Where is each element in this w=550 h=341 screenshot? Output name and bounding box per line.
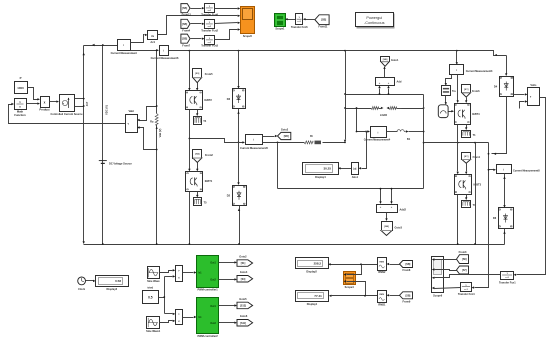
svg-text:Vabt: Vabt: [128, 109, 134, 113]
wire constant-1000 to Product: [28, 88, 38, 100]
block Av1 mean value: [148, 31, 158, 40]
from tag From4: [181, 19, 190, 28]
wire CM1 electrical out to CM6: [131, 50, 157, 52]
display Display1: [296, 291, 329, 302]
wire branch to comparator2 upper input: [165, 313, 173, 315]
svg-text:[SB]: [SB]: [405, 294, 410, 297]
svg-text:From5: From5: [205, 72, 213, 76]
wire From7 to Transfer Fcn3: [191, 38, 202, 40]
wire mid rail down to IGBT1 collector: [189, 139, 191, 170]
transfer function block Transfer Fcn1: [501, 272, 514, 280]
svg-text:Goto4: Goto4: [240, 270, 248, 274]
svg-text:RMS2: RMS2: [378, 270, 386, 274]
wire From10 to Scope6 input 2: [435, 270, 457, 271]
wire Product to Controlled Current Source: [50, 101, 57, 103]
from tag From12: [181, 4, 190, 13]
svg-text:IGBT2: IGBT2: [204, 98, 212, 102]
transistor IGBT1: [186, 172, 203, 192]
node bus x103: [102, 243, 104, 245]
wire load top bus y94: [346, 94, 424, 96]
wire Br rail from CM5 to load left leg: [263, 142, 305, 144]
svg-text:D4: D4: [494, 85, 498, 89]
svg-text:Transfer Fcn4: Transfer Fcn4: [458, 292, 475, 296]
svg-text:258.2: 258.2: [314, 262, 322, 266]
svg-text:RMS1: RMS1: [378, 303, 386, 307]
svg-text:IGBT4: IGBT4: [472, 112, 480, 116]
wire comparator2 to PWM-controller2: [183, 317, 194, 319]
wire Vabt output feedback to Math Function: [9, 105, 126, 124]
wire RMS1 to Display1: [332, 295, 378, 297]
svg-text:Transfer Fcn2: Transfer Fcn2: [201, 28, 218, 32]
wire From2 to IGBT1 gate: [197, 163, 199, 170]
current measurement block CM3: [450, 65, 464, 75]
transfer function block Transfer Fcn9: [205, 4, 215, 13]
svg-text:IGBT1: IGBT1: [205, 179, 213, 183]
svg-text:Ru: Ru: [150, 121, 154, 124]
wire CM3 to transformer: [446, 75, 452, 84]
svg-text:0.58: 0.58: [115, 279, 121, 283]
current measurement block CM6: [160, 46, 169, 56]
node Br rail to Goto2-feedback branch: [277, 142, 279, 144]
svg-text:Abs1: Abs1: [352, 175, 359, 179]
svg-text:[SB]: [SB]: [384, 226, 389, 228]
node top bus DC source junction: [102, 44, 104, 46]
sum block Add: [376, 78, 395, 86]
wire constant to comparators: [159, 297, 165, 299]
wire Add input left drop: [379, 89, 381, 95]
node x475 junction: [474, 142, 476, 144]
node load line right leg: [423, 107, 425, 109]
wire Volts output to right edge vertical down to Transfer Fcn1: [517, 98, 546, 275]
node CCS plus junction: [83, 98, 85, 100]
scope Scope1 green: [275, 14, 286, 27]
svg-text:Goto1: Goto1: [391, 58, 399, 62]
svg-text:From2: From2: [205, 153, 213, 157]
node left leg load-line: [344, 107, 346, 109]
current measurement block CM8: [497, 165, 512, 174]
wire PWM1 Out1 to GotoS1: [219, 262, 235, 264]
node Vab tap top: [156, 49, 158, 51]
svg-text:RMS: RMS: [379, 262, 384, 264]
wire Transfer Fcn3 to Scope5 input 4: [215, 30, 238, 40]
svg-text:Sine Wave: Sine Wave: [147, 279, 160, 283]
wire From9 to RMS1: [390, 295, 400, 297]
svg-text:417: 417: [85, 101, 89, 106]
block T5: [194, 198, 202, 206]
wire Volts input 2: [520, 102, 525, 109]
wire Av1 to Scope5 input 2: [158, 16, 238, 35]
wire tap to Scope4 input 1: [347, 265, 362, 275]
svg-text:D2: D2: [227, 194, 231, 198]
wire Volts input 1: [514, 94, 525, 96]
from tag From3: [457, 255, 469, 264]
svg-text:1000: 1000: [17, 86, 24, 90]
wire CM1 signal out to Av1: [131, 35, 145, 43]
comparator block 2: [176, 310, 183, 325]
wire clock to Display3: [86, 280, 94, 282]
from tag From6 gate signal: [462, 85, 471, 93]
svg-text:Transfer Fcn9: Transfer Fcn9: [201, 13, 218, 17]
wire Transfer Fcn6 to Scope1: [288, 19, 296, 21]
wire CM8 bottom to D6: [504, 174, 506, 206]
wire long top rail y50.6 from CM6 to right side: [169, 51, 507, 56]
wire From4 to Transfer Fcn2: [191, 23, 202, 25]
wire y142.6 line from right leg to far right vertical: [424, 142, 489, 144]
wire right load leg vertical x423.6: [423, 95, 425, 189]
svg-text:Controlled Current Source: Controlled Current Source: [51, 112, 84, 116]
svg-text:From8: From8: [403, 268, 411, 272]
svg-text:[S7]: [S7]: [462, 269, 467, 272]
svg-text:From12: From12: [182, 13, 192, 17]
svg-text:[S11]: [S11]: [240, 322, 246, 325]
wire load mid tap down to Abs1: [362, 132, 367, 169]
node scope4 tap 2: [364, 295, 366, 297]
svg-text:Current Measurement6: Current Measurement6: [151, 56, 179, 60]
wire Add2 output down to Goto3: [386, 213, 388, 219]
current measurement block CM5: [246, 135, 263, 145]
wire mid rail from IGBT2 emitter to CM5: [190, 139, 243, 143]
constant P = 1000: [15, 82, 28, 94]
wire Transfer Fcn9 to Scope5 input 1: [215, 8, 238, 10]
wire CM5 signal out to Goto2: [263, 136, 275, 138]
sine wave block Sine Wave: [148, 267, 160, 279]
svg-text:Display2: Display2: [306, 270, 317, 274]
wire Sine Wave to comparator1: [160, 271, 173, 273]
wire From5 to IGBT2 gate: [197, 83, 199, 89]
sum block Add2: [377, 205, 398, 213]
svg-text:[S?]: [S?]: [464, 89, 469, 91]
svg-text:RMS: RMS: [379, 294, 384, 296]
wire bottom bus y244: [84, 244, 505, 246]
node rail drop CM3: [456, 50, 458, 52]
node bus x189.4: [189, 243, 191, 245]
product block: [41, 97, 50, 108]
transfer function block Transfer Fcn3: [205, 36, 215, 45]
node bus x475: [474, 243, 476, 245]
goto tag Goto1: [381, 57, 390, 62]
wire gate block to IGBT4: [449, 111, 452, 113]
svg-text:From1: From1: [473, 156, 481, 159]
subsystem PWM-controller1 green: [197, 256, 219, 288]
resistor Br inline: [304, 141, 313, 144]
goto tag Goto2: [278, 132, 291, 139]
svg-text:[S4]: [S4]: [195, 153, 199, 156]
wire Vab measure vertical x156.7: [156, 51, 158, 245]
diode D2: [233, 186, 247, 206]
wire DC source vertical x103: [102, 46, 104, 245]
block RMS1: [378, 291, 387, 303]
svg-text:IGBT3: IGBT3: [474, 183, 482, 187]
wire IGBT1 pulse out to T5: [197, 192, 199, 196]
svg-text:Out1: Out1: [210, 262, 216, 265]
wire y142.6 down to IGBT3 collector: [457, 143, 459, 172]
svg-text:Volts: Volts: [530, 83, 537, 87]
wire top bus y45: [84, 45, 118, 47]
svg-text:D3: D3: [227, 97, 231, 101]
node rail corner right: [495, 54, 497, 56]
svg-text:D6: D6: [493, 216, 497, 220]
block T1: [462, 131, 471, 138]
wire IGBT4 emitter to y142.6: [457, 125, 459, 143]
svg-text:Clock: Clock: [78, 287, 86, 291]
svg-text:-Continuous: -Continuous: [364, 21, 385, 25]
DC voltage source battery symbol: [99, 160, 107, 162]
svg-text:[SB]: [SB]: [182, 23, 187, 26]
wire RMS2 to Display2: [331, 264, 378, 266]
svg-text:VDC (V): VDC (V): [104, 105, 108, 115]
display Display2: [296, 258, 329, 269]
svg-text:[S13]: [S13]: [240, 304, 246, 307]
svg-text:From3: From3: [459, 250, 467, 254]
resistor Ru inline on x156.7: [155, 114, 159, 126]
load line y108 with RL symbols: [346, 108, 372, 110]
wire From3 to Scope6 input 1: [435, 259, 457, 261]
goto tag Goto3: [382, 222, 393, 231]
wire Vabt input minus from x156.7: [140, 128, 157, 150]
svg-text:Display1: Display1: [307, 302, 318, 306]
node rail drop D3 leg: [238, 50, 240, 52]
svg-text:Out1: Out1: [210, 305, 216, 308]
svg-text:From7: From7: [182, 43, 190, 47]
wire branch down from Br rail to Add2 rail: [277, 143, 279, 189]
wire Transfer Fcn1 to Scope6 input 3: [435, 275, 501, 278]
wire branch into CM8: [489, 169, 494, 171]
svg-text:[S4]: [S4]: [241, 278, 246, 281]
wire Add input right drop: [388, 89, 390, 95]
svg-text:Function: Function: [14, 113, 26, 117]
wire left load leg vertical x345: [345, 51, 347, 140]
svg-text:Out2: Out2: [210, 279, 216, 282]
wire From11 to Transfer Fcn6: [306, 19, 315, 21]
node left leg top-bus: [344, 93, 346, 95]
from tag From5 gate signal: [193, 69, 202, 78]
svg-text:30.25: 30.25: [323, 167, 331, 171]
display Display4: [303, 163, 339, 175]
svg-text:Current Measurement5: Current Measurement5: [240, 146, 268, 150]
svg-text:0.5: 0.5: [148, 295, 153, 299]
wire IGBT3 emitter to bottom bus: [457, 195, 459, 245]
sine wave block Sine Wave1: [147, 317, 160, 329]
wire branch to comparator1 lower input: [165, 276, 173, 278]
svg-text:DC Voltage Source: DC Voltage Source: [109, 162, 132, 166]
svg-text:Current Measurement3: Current Measurement3: [466, 70, 493, 73]
svg-text:P: P: [20, 76, 22, 80]
wire IGBT2 emitter down to mid rail: [189, 110, 191, 139]
wire CCS minus terminal to DC bus: [75, 106, 84, 108]
svg-text:Add: Add: [397, 80, 402, 84]
subsystem PWM-controller2 green: [197, 298, 219, 334]
wire From1 to IGBT3 gate: [466, 164, 468, 172]
svg-text:[SB]: [SB]: [284, 135, 289, 138]
node rail drop IGBT2 leg: [189, 50, 191, 52]
from tag From2 gate signal: [193, 150, 202, 159]
svg-text:Goto3: Goto3: [395, 226, 403, 230]
goto tag S1: [237, 260, 253, 267]
svg-text:[S1]: [S1]: [241, 262, 246, 265]
svg-text:Transfer Fcn3: Transfer Fcn3: [201, 44, 218, 48]
goto tag S11: [237, 320, 253, 327]
wire From6 to IGBT4 gate: [466, 98, 468, 101]
wire Math Function to Product: [27, 103, 38, 105]
svg-text:PWM-controller1: PWM-controller1: [197, 288, 218, 292]
wire transformer to gate block: [445, 96, 447, 103]
svg-text:Product: Product: [39, 108, 49, 112]
svg-text:Transfer Fcn1: Transfer Fcn1: [499, 281, 516, 285]
wire CM4 out with inductor B1: [387, 131, 398, 133]
svg-text:Vab (V): Vab (V): [158, 128, 162, 137]
svg-text:Scope6: Scope6: [433, 294, 443, 298]
svg-text:tried: tried: [148, 286, 154, 290]
from tag From10: [457, 266, 469, 274]
svg-text:Current Measurement4: Current Measurement4: [364, 139, 391, 142]
scope Scope6: [432, 257, 444, 293]
wire IGBT4 pulse out to T1: [466, 125, 468, 128]
transfer function block Transfer Fcn6: [296, 14, 303, 25]
wire CCS plus terminal to DC bus: [75, 98, 84, 100]
goto tag S4: [237, 276, 253, 283]
transformer block: [442, 86, 451, 96]
wire Transfer Fcn2 to Scope5 input 3: [215, 23, 238, 24]
svg-text:Goto2: Goto2: [281, 128, 289, 132]
wire From8 to RMS2: [390, 264, 400, 266]
wire Vabt input plus from x156.7: [140, 107, 157, 121]
svg-text:Display3: Display3: [107, 287, 118, 291]
node Br rail left leg junction: [344, 142, 346, 144]
svg-text:Scope5: Scope5: [243, 34, 253, 38]
diode D3: [233, 89, 246, 109]
svg-text:x: x: [44, 100, 46, 104]
node CCS minus junction: [83, 105, 85, 107]
wire far right vertical x488.5: [475, 143, 489, 288]
wire CM3 right leg down to IGBT4 collector: [457, 75, 459, 101]
svg-text:From11: From11: [318, 25, 328, 29]
clock block: [78, 277, 86, 285]
wire D2 cathode to bottom bus: [239, 206, 241, 245]
current measurement block CM1: [118, 40, 131, 51]
wire From12 to Transfer Fcn9: [191, 8, 202, 10]
svg-text:[SB]: [SB]: [383, 59, 388, 61]
wire Abs1 to Display4: [341, 168, 352, 170]
gate block rounded: [438, 105, 448, 118]
node D leg joins mid rail: [238, 142, 240, 144]
svg-text:[SB]: [SB]: [405, 263, 410, 266]
svg-text:Sine Wave1: Sine Wave1: [146, 329, 161, 333]
svg-text:[SB]: [SB]: [182, 38, 187, 41]
scope Scope4 orange: [344, 272, 356, 285]
svg-text:Display4: Display4: [315, 175, 326, 179]
svg-text:[SB]: [SB]: [182, 7, 187, 10]
powergui block: [357, 14, 395, 29]
wire rail drop to CM3: [456, 51, 458, 63]
wire PWM1 Out2 to GotoS4: [219, 279, 235, 281]
scope Scope5 orange: [241, 7, 255, 34]
node right leg CM4 line: [423, 131, 425, 133]
svg-text:From4: From4: [182, 28, 190, 32]
block T4: [194, 117, 202, 125]
current measurement block CM4: [371, 127, 387, 138]
transistor IGBT2: [186, 91, 203, 110]
svg-text:Scope4: Scope4: [345, 285, 355, 289]
svg-text:LOAD: LOAD: [380, 113, 387, 117]
wire load mid tap x356.5: [357, 109, 368, 132]
svg-text:77.41: 77.41: [314, 294, 322, 298]
from tag From8: [400, 261, 413, 268]
wire D6 anode to bottom bus: [504, 229, 506, 245]
svg-text:From9: From9: [403, 299, 411, 303]
wire Add2 rail y188.7: [278, 188, 424, 190]
svg-text:Add2: Add2: [400, 208, 407, 212]
node D4 line junction: [488, 153, 490, 155]
svg-text:|u|: |u|: [353, 168, 356, 171]
svg-text:Out2: Out2: [210, 322, 216, 325]
wire Add output up to Goto1: [384, 69, 386, 78]
wire Transfer Fcn4 to Scope6 input 4: [435, 288, 461, 289]
from tag From11: [315, 15, 329, 25]
svg-text:Current Measurement8: Current Measurement8: [513, 170, 540, 173]
svg-text:From6: From6: [472, 90, 480, 93]
svg-text:[SB]: [SB]: [321, 19, 326, 22]
constant block tried 0.5: [143, 291, 159, 304]
svg-text:Scope1: Scope1: [275, 27, 285, 31]
goto tag S13: [237, 302, 253, 309]
diode D4: [500, 77, 514, 97]
node bus x156.7: [156, 243, 158, 245]
svg-text:[S?]: [S?]: [464, 156, 469, 158]
wire comparator1 to PWM-controller1: [183, 272, 194, 274]
svg-text:Transfer Fcn6: Transfer Fcn6: [291, 25, 308, 29]
node scope4 tap 1: [360, 263, 362, 265]
block Vabt voltage measurement: [126, 115, 138, 133]
transistor IGBT3: [455, 175, 472, 195]
svg-text:Av1: Av1: [150, 40, 155, 44]
svg-text:Current Measurement: Current Measurement: [111, 51, 137, 55]
diode D6: [499, 208, 514, 229]
svg-text:Goto2: Goto2: [239, 254, 247, 258]
wire rail corner down to D4: [506, 56, 508, 74]
from tag From1 gate signal: [462, 153, 471, 160]
svg-text:Goto5: Goto5: [239, 297, 247, 301]
wire rail drop to D3: [238, 51, 240, 87]
svg-text:Br: Br: [310, 134, 313, 138]
wire D3 cathode down to D2: [238, 109, 240, 183]
wire IGBT1 emitter to bottom bus: [189, 192, 191, 245]
wire Add2 input right drop: [391, 189, 393, 202]
wire D4 cathode down to junction with CM8 vertical: [492, 97, 507, 154]
svg-text:B1: B1: [407, 137, 411, 141]
svg-text:[S6]: [S6]: [462, 258, 467, 261]
wire PWM2 Out1 to GotoS13: [219, 305, 235, 307]
from tag From7: [181, 34, 190, 43]
node bus x239: [238, 243, 240, 245]
wire PWM2 Out2 to GotoS11: [219, 322, 235, 324]
from tag From9: [400, 292, 413, 299]
wire IGBT3 pulse out to T3: [466, 195, 468, 198]
wire DC bus vertical left x84: [83, 46, 85, 242]
wire rail drop to IGBT2 collector: [189, 51, 191, 89]
node IGBT4 leg junction: [457, 142, 459, 144]
wire x475 right bridge leg to bottom bus: [475, 143, 477, 245]
node right leg y142.6: [423, 142, 425, 144]
wire IGBT2 pulse out to T4: [197, 110, 199, 114]
svg-text:Powergui: Powergui: [366, 16, 382, 20]
wire Add2 input left drop: [380, 189, 382, 202]
svg-text:Goto6: Goto6: [240, 314, 248, 318]
block RMS2: [378, 258, 387, 271]
wire tap to Scope4 input 2: [347, 282, 366, 296]
transfer function block Transfer Fcn4: [461, 283, 472, 292]
wire Sine Wave1 to comparator2: [160, 321, 173, 323]
block T3: [462, 201, 471, 208]
